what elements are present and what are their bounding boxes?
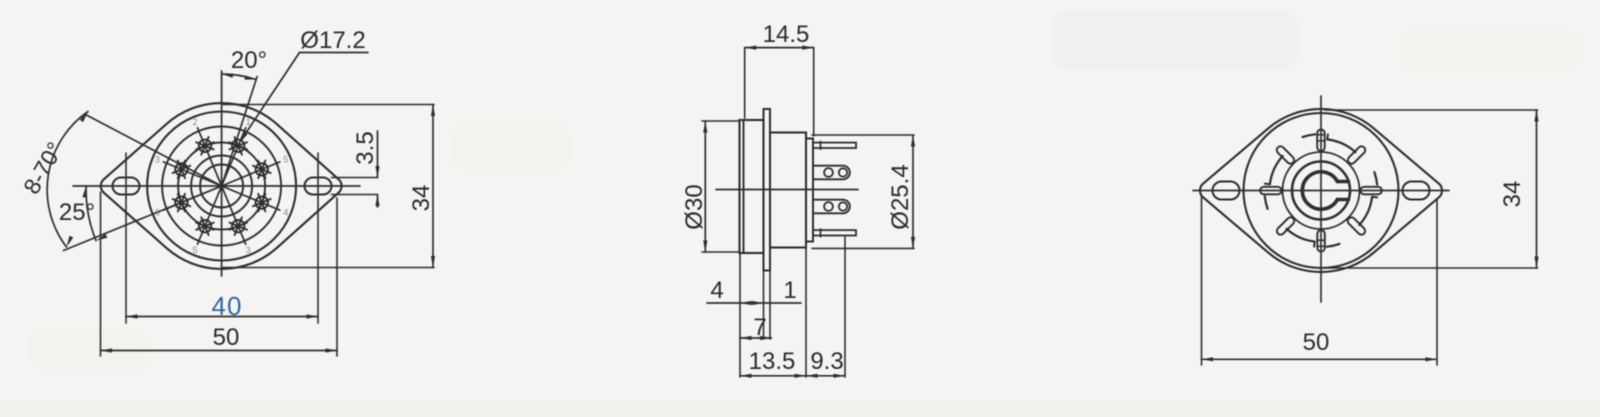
svg-text:20°: 20° xyxy=(231,47,267,74)
34 bottom extension line xyxy=(222,267,434,269)
14.5 extension lines xyxy=(744,48,746,118)
svg-text:34: 34 xyxy=(408,185,435,212)
svg-text:Ø17.2: Ø17.2 xyxy=(300,27,365,54)
8-70 deg lower radial line (25 deg line) xyxy=(64,186,222,251)
pin contact at 112.5 deg xyxy=(253,194,271,212)
inner ring 2 xyxy=(191,156,252,217)
pin radial line 247.5 deg xyxy=(163,186,221,210)
pin radial line 112.5 deg xyxy=(222,186,280,210)
svg-text:7: 7 xyxy=(753,314,766,341)
pin radial line 67.5 deg xyxy=(222,162,280,186)
right 50 dimension line xyxy=(1202,358,1438,360)
svg-text:5: 5 xyxy=(283,154,288,164)
pin contact at 292.5 deg xyxy=(173,161,191,179)
svg-text:14.5: 14.5 xyxy=(763,21,810,48)
upper solder lug xyxy=(813,166,850,180)
right 34 bottom extension line xyxy=(1323,267,1538,269)
dia 25.4 extension lines xyxy=(812,134,914,136)
left flange plate outline xyxy=(101,103,342,269)
pin circle dia 17.2 xyxy=(178,143,265,230)
right view body circle xyxy=(1244,113,1399,268)
contact spring tick 90 deg xyxy=(1374,172,1377,185)
contact slot 90 deg xyxy=(1360,187,1382,195)
contact slot 315 deg xyxy=(1275,145,1296,166)
extension line rear face xyxy=(805,248,807,378)
contact spring arc 270 deg xyxy=(1270,156,1283,184)
socket body circle xyxy=(147,112,296,261)
dia 17.2 leader line xyxy=(242,53,300,140)
dia 30 dimension line xyxy=(704,121,706,252)
svg-text:4: 4 xyxy=(710,277,723,304)
left mounting slot right xyxy=(305,178,332,195)
contact spring arc 90 deg xyxy=(1359,197,1372,225)
40 extension lines xyxy=(125,153,127,323)
right 34 top extension line xyxy=(1325,109,1538,111)
top pin tick xyxy=(820,142,822,150)
cylinder rim line xyxy=(743,120,745,253)
svg-text:50: 50 xyxy=(213,324,240,351)
pin contact at 337.5 deg xyxy=(196,137,214,155)
right view mounting slot left xyxy=(1213,182,1240,200)
top slot ticks xyxy=(1318,134,1325,136)
left view vertical center line xyxy=(221,71,223,276)
mounting plate (side) xyxy=(764,109,771,271)
svg-text:Ø25.4: Ø25.4 xyxy=(887,164,914,229)
contact spring tick 180 deg xyxy=(1327,244,1340,247)
pin radial line 202.5 deg xyxy=(198,186,222,244)
svg-text:34: 34 xyxy=(1499,181,1526,208)
contact slot 225 deg xyxy=(1275,216,1296,237)
bottom pin tick xyxy=(820,229,822,237)
pin contact at 157.5 deg xyxy=(230,217,248,235)
contact slot 180 deg xyxy=(1317,230,1325,252)
body front cylinder xyxy=(740,120,764,253)
svg-text:2: 2 xyxy=(192,117,197,127)
svg-text:25°: 25° xyxy=(59,199,95,226)
right view contact ring circle xyxy=(1283,152,1360,229)
50 extension lines xyxy=(100,192,102,356)
contact spring arc 180 deg xyxy=(1287,229,1315,242)
svg-text:5: 5 xyxy=(192,245,197,255)
svg-text:13.5: 13.5 xyxy=(749,348,796,375)
extension line body left edge xyxy=(739,253,741,377)
lower solder lug xyxy=(813,200,850,214)
contact spring tick 0 deg xyxy=(1303,134,1316,137)
7 dimension line xyxy=(740,337,772,339)
dia 30 extension lines xyxy=(702,120,740,122)
bottom straight pin xyxy=(813,230,856,235)
svg-text:3: 3 xyxy=(155,154,160,164)
right view mounting slot right xyxy=(1403,182,1430,200)
body rear section xyxy=(770,133,806,248)
4 and 1 dimension line xyxy=(707,302,801,304)
right 34 dimension line xyxy=(1536,110,1538,268)
svg-text:Ø30: Ø30 xyxy=(681,184,708,229)
3.5 dimension line with outside arrows xyxy=(377,131,379,178)
svg-text:40: 40 xyxy=(212,291,243,321)
top straight pin xyxy=(813,143,856,148)
key slot lines xyxy=(1337,180,1348,183)
extension line lug tip xyxy=(844,237,846,377)
contact spring arc 0 deg xyxy=(1327,139,1355,152)
20 deg dimension arc xyxy=(222,74,257,80)
pin contact at 247.5 deg xyxy=(173,194,191,212)
50 dimension line xyxy=(101,350,338,352)
contact slot 45 deg xyxy=(1346,145,1367,166)
contact slot 0 deg xyxy=(1317,130,1325,152)
svg-text:3: 3 xyxy=(246,245,251,255)
9.3 dimension line xyxy=(806,375,845,377)
25 deg dimension arc xyxy=(86,186,96,241)
pin radial line 292.5 deg xyxy=(163,162,221,186)
pin contact at 67.5 deg xyxy=(253,161,271,179)
svg-text:3.5: 3.5 xyxy=(352,131,379,164)
center key hole (C shape) xyxy=(1302,172,1337,209)
svg-text:4: 4 xyxy=(283,208,288,218)
8-70 deg dimension arc xyxy=(47,112,88,248)
pin contact at 22.5 deg xyxy=(230,137,248,155)
dia 25.4 dimension line xyxy=(912,135,914,248)
pin radial line 22.5 deg xyxy=(222,128,246,186)
right 50 extension lines xyxy=(1201,196,1203,365)
inner ring 3 xyxy=(200,165,243,208)
20 deg radial line xyxy=(222,77,258,186)
pin radial line 157.5 deg xyxy=(222,186,246,244)
svg-text:50: 50 xyxy=(1303,329,1330,356)
left mounting slot left xyxy=(113,178,140,195)
34 dimension line xyxy=(432,105,434,268)
middle view horizontal center line xyxy=(716,189,858,191)
svg-text:1: 1 xyxy=(783,277,796,304)
pin contact at 202.5 deg xyxy=(196,217,214,235)
socket inner ring xyxy=(162,127,281,246)
svg-text:9.3: 9.3 xyxy=(810,348,843,375)
right flange plate outline xyxy=(1200,109,1442,272)
contact slot 270 deg xyxy=(1260,187,1282,195)
34 top extension line xyxy=(223,104,434,106)
rear face plate xyxy=(806,139,813,242)
8-70 deg upper radial line xyxy=(85,114,222,186)
extension lines mounting plate xyxy=(763,271,765,340)
bottom slot ticks xyxy=(1318,239,1325,241)
contact spring tick 270 deg xyxy=(1265,196,1268,209)
svg-text:1: 1 xyxy=(246,117,251,127)
14.5 dimension line xyxy=(745,47,814,49)
right view horizontal center line xyxy=(1193,190,1449,192)
pin radial line 337.5 deg xyxy=(198,128,222,186)
40 dimension line xyxy=(126,316,318,318)
center spigot outer circle xyxy=(1292,162,1350,220)
right view vertical center line xyxy=(1320,96,1322,302)
left view horizontal center line xyxy=(73,185,360,187)
13.5 dimension line xyxy=(740,375,806,377)
contact slot 135 deg xyxy=(1346,216,1367,237)
3.5 extension lines from right slot xyxy=(332,177,378,179)
